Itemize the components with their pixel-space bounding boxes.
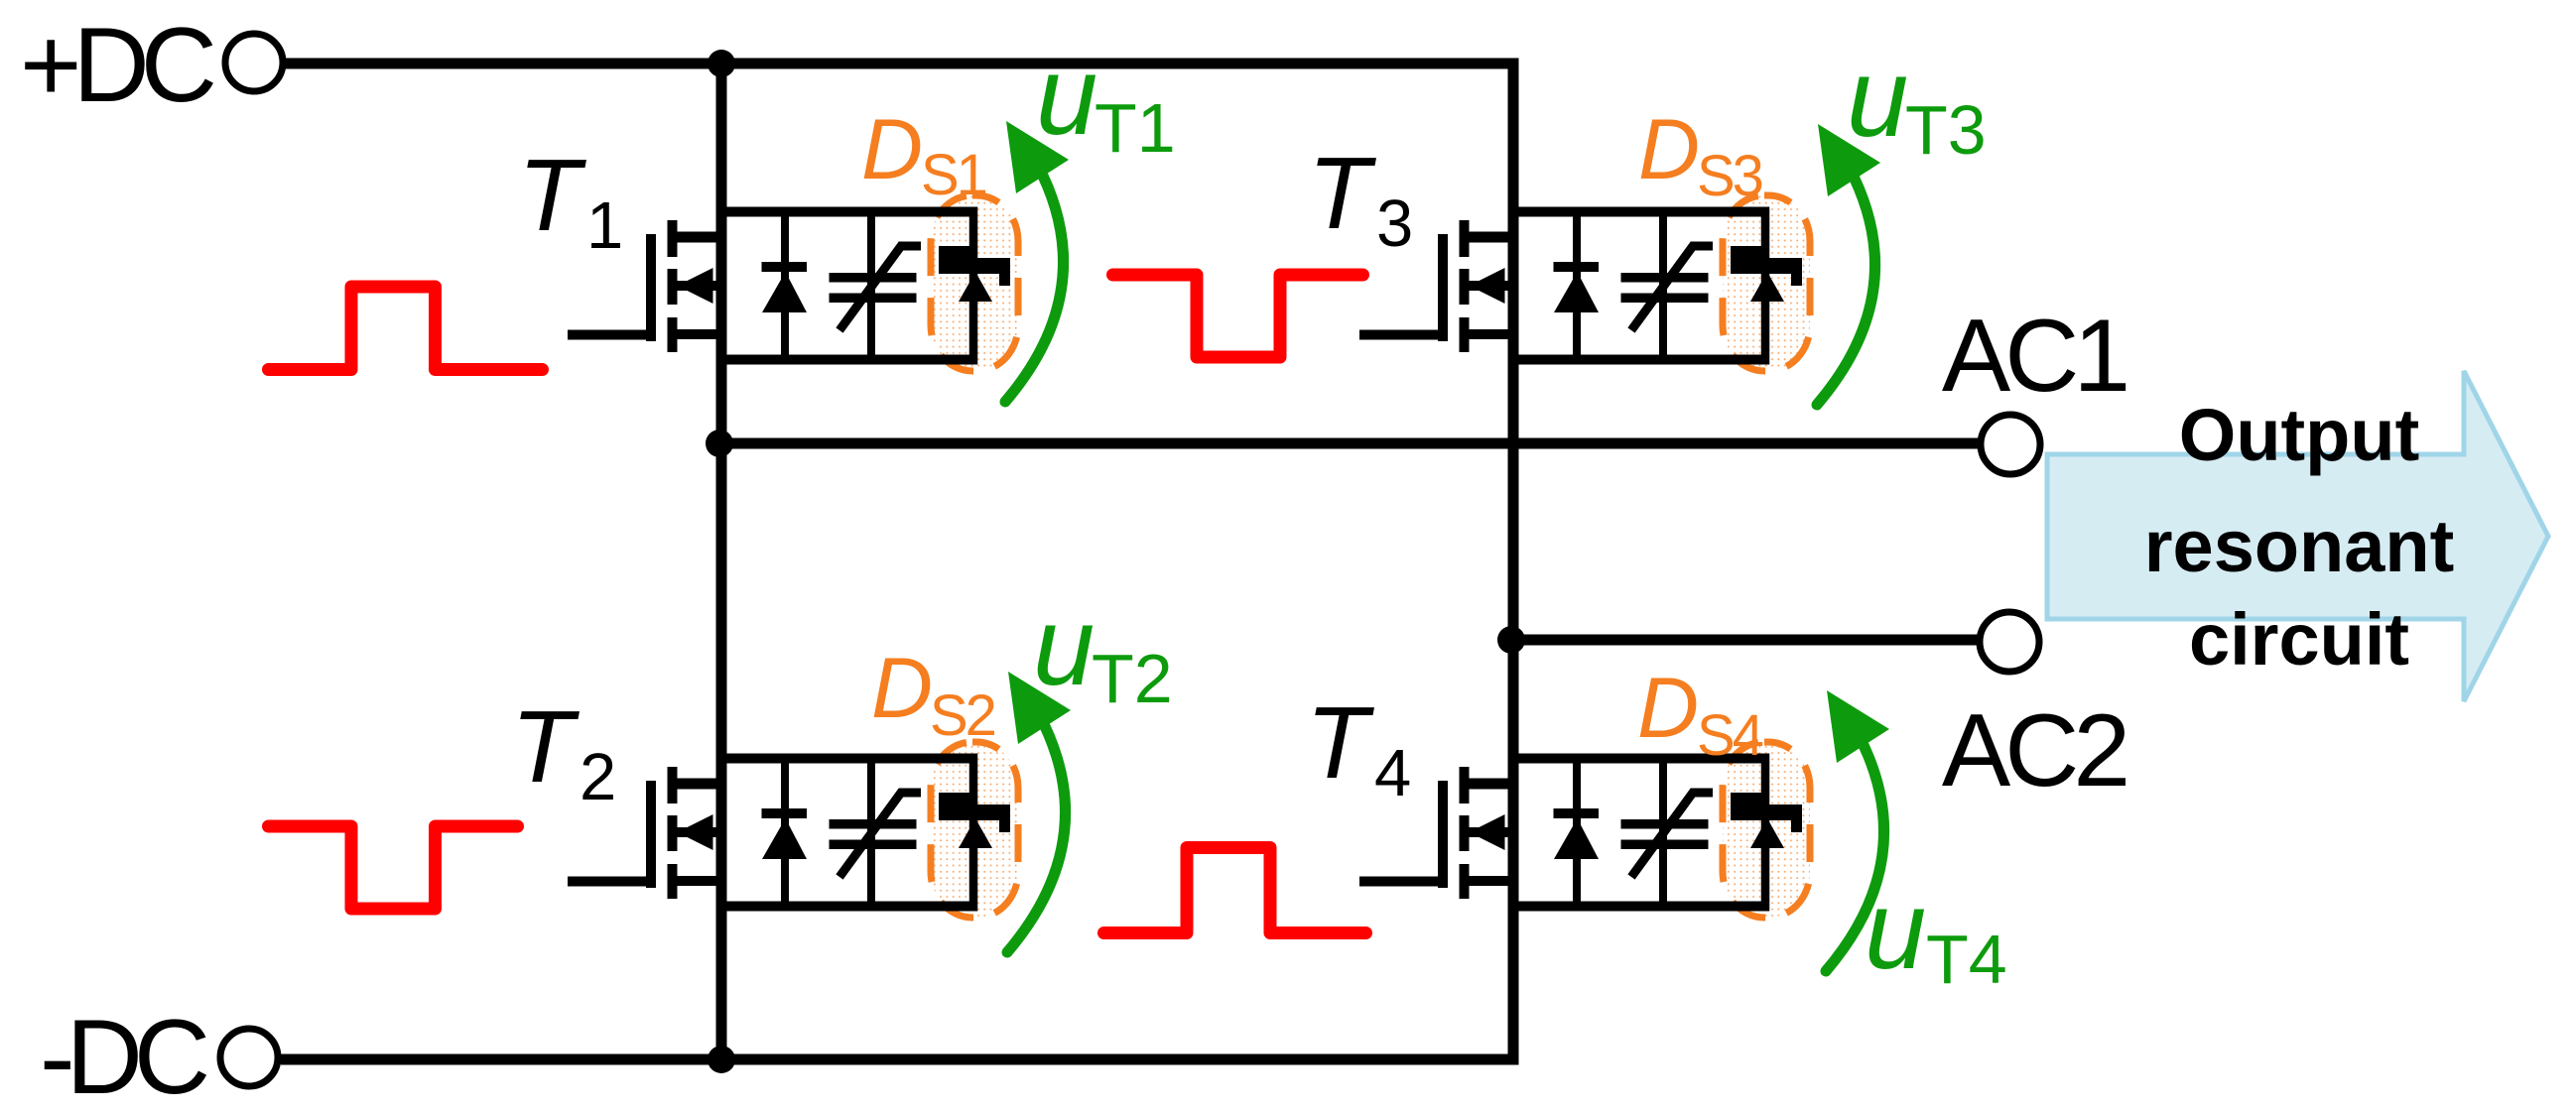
svg-text:u: u (1033, 584, 1095, 708)
svg-text:-DC: -DC (40, 997, 207, 1113)
wire: T2 drain-source parallel branch box (716, 759, 977, 907)
red gate drive pulse waveform for T4 (1104, 848, 1366, 933)
body diode of T3 (1554, 207, 1600, 365)
parasitic output capacitor of T2 (830, 754, 922, 912)
+DC terminal circle (225, 34, 283, 91)
red gate drive pulse waveform for T3 (1113, 275, 1363, 357)
Schottky diode DS3 (1731, 207, 1802, 365)
wire: T3 drain-source parallel branch box (1508, 212, 1769, 360)
transistor T4 (MOSFET symbol) (1359, 767, 1518, 899)
svg-text:resonant: resonant (2144, 505, 2455, 587)
svg-text:S2: S2 (930, 683, 995, 748)
svg-text:T: T (518, 138, 586, 252)
svg-text:D: D (1638, 102, 1700, 197)
red gate drive pulse waveform for T1 (269, 287, 543, 370)
-DC terminal circle (220, 1029, 278, 1086)
orange dashed highlight around DS1 (931, 195, 1018, 371)
svg-text:Output: Output (2179, 394, 2419, 476)
svg-text:S1: S1 (921, 143, 986, 207)
junction dot: AC2 node on right leg (1497, 626, 1525, 654)
body diode of T1 (762, 207, 808, 365)
parasitic output capacitor of T1 (830, 207, 922, 365)
svg-text:T: T (1306, 685, 1374, 800)
wire: left phase leg (T1/T2) (716, 63, 727, 1059)
parasitic output capacitor of T3 (1621, 207, 1714, 365)
svg-text:AC2: AC2 (1942, 693, 2125, 808)
svg-text:T: T (1308, 136, 1376, 250)
Schottky diode DS2 (939, 754, 1010, 912)
orange dashed highlight around DS2 (931, 742, 1018, 918)
svg-text:S4: S4 (1697, 703, 1763, 768)
green arrow u_T4 (voltage arc) (1826, 733, 1884, 971)
svg-text:2: 2 (580, 740, 616, 814)
transistor T1 (MOSFET symbol) (568, 220, 726, 352)
green arrow u_T2 (voltage arc) (1007, 714, 1066, 952)
svg-text:3: 3 (1376, 186, 1413, 261)
red gate drive pulse waveform for T2 (269, 826, 518, 909)
output resonant circuit arrow (block arrow) (2047, 371, 2548, 701)
wire: -DC bottom rail (281, 1054, 1519, 1065)
Schottky diode DS1 (939, 207, 1010, 365)
wire: +DC top rail (286, 59, 1519, 69)
svg-text:D: D (871, 641, 933, 736)
svg-text:T1: T1 (1095, 89, 1176, 167)
wire: T4 drain-source parallel branch box (1508, 759, 1769, 907)
parasitic output capacitor of T4 (1621, 754, 1714, 912)
junction dot: bottom rail / left leg (708, 1046, 735, 1073)
svg-text:T4: T4 (1926, 921, 2007, 998)
wire: T1 drain-source parallel branch box (716, 212, 977, 360)
wire: AC2 output line (1508, 635, 1980, 646)
svg-text:S3: S3 (1697, 144, 1762, 208)
AC1 terminal circle (1981, 415, 2040, 474)
svg-text:T3: T3 (1905, 91, 1987, 169)
orange dashed highlight around DS3 (1723, 195, 1810, 371)
svg-text:1: 1 (586, 188, 623, 263)
junction dot: top rail / left leg (708, 50, 735, 77)
svg-text:4: 4 (1374, 736, 1411, 810)
svg-text:circuit: circuit (2189, 598, 2409, 680)
body diode of T2 (762, 754, 808, 912)
wire: AC1 output line (716, 438, 1981, 449)
svg-text:D: D (861, 102, 923, 197)
wire: right phase leg (T3/T4) (1508, 59, 1519, 1065)
transistor T3 (MOSFET symbol) (1359, 220, 1518, 352)
svg-text:D: D (1637, 661, 1699, 756)
junction dot: AC1 node on left leg (706, 430, 733, 457)
svg-text:u: u (1847, 36, 1908, 160)
svg-text:+DC: +DC (20, 5, 214, 124)
AC2 terminal circle (1980, 612, 2039, 672)
svg-text:AC1: AC1 (1942, 299, 2125, 414)
body diode of T4 (1554, 754, 1600, 912)
svg-text:u: u (1865, 868, 1926, 992)
green arrow u_T3 (voltage arc) (1817, 167, 1875, 405)
transistor T2 (MOSFET symbol) (568, 767, 726, 899)
Schottky diode DS4 (1731, 754, 1802, 912)
green arrow u_T1 (voltage arc) (1005, 164, 1064, 402)
svg-text:T: T (511, 689, 580, 804)
svg-text:u: u (1036, 34, 1097, 158)
orange dashed highlight around DS4 (1723, 742, 1810, 918)
svg-text:T2: T2 (1092, 640, 1173, 717)
